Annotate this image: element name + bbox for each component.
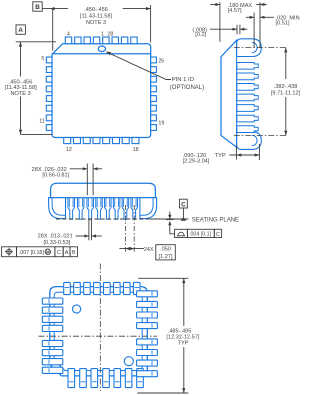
dimension 28X .026-.032 [0.66-0.81] <box>86 164 88 196</box>
flatness frame leader <box>168 221 171 226</box>
svg-text:[1.27]: [1.27] <box>159 254 173 260</box>
front view: hanging J-leads <box>68 198 75 220</box>
svg-text:C: C <box>216 232 220 238</box>
svg-text:28: 28 <box>107 32 113 38</box>
feature control frame: position .007 [0.18] M C A B <box>2 247 17 257</box>
svg-text:B: B <box>35 4 40 11</box>
bottom view: index hole top-left <box>73 305 81 313</box>
svg-text:MIN: MIN <box>289 15 299 21</box>
top view: top row pin tabs <box>65 37 71 44</box>
bottom view: vertical center line <box>99 264 101 392</box>
svg-text:C: C <box>181 201 186 208</box>
svg-text:M: M <box>46 250 50 255</box>
svg-text:25: 25 <box>158 59 164 65</box>
svg-text:4: 4 <box>67 32 70 38</box>
svg-text:[0.33-0.53]: [0.33-0.53] <box>44 240 71 246</box>
bottom view: index hole bottom-right <box>124 357 133 366</box>
svg-text:28X .013-.021: 28X .013-.021 <box>38 233 73 239</box>
svg-text:11: 11 <box>39 119 45 125</box>
dimension .485-.495 [12.32-12.57] TYP <box>138 277 188 279</box>
bottom view: top side lead tabs <box>64 282 71 294</box>
extension line at body bottom left <box>21 133 53 135</box>
dimension .090-.120 TYP [2.29-3.04] <box>236 146 238 160</box>
svg-text:NOTE 3: NOTE 3 <box>86 20 106 26</box>
datum C box <box>180 199 188 208</box>
front view: body top face <box>51 183 156 197</box>
bottom view: bottom side lead tabs <box>68 369 75 388</box>
svg-text:(OPTIONAL): (OPTIONAL) <box>170 85 204 91</box>
datum C triangle on seating plane <box>181 217 187 221</box>
small stand-off arrows at seating plane <box>166 219 174 221</box>
top view: PLCC body outline with pin-1 chamfer <box>52 44 151 138</box>
svg-text:[0.51]: [0.51] <box>276 20 290 26</box>
top view: inner line below top edge <box>53 53 151 55</box>
svg-text:[9.71-11.12]: [9.71-11.12] <box>271 91 301 97</box>
svg-text:TYP: TYP <box>178 341 189 347</box>
feature control frame: flatness .004 [0.1] C <box>175 229 188 237</box>
bottom view: horizontal center line <box>39 335 158 337</box>
dimension 24X .050 [1.27] basic <box>124 205 126 252</box>
svg-text:.004 [0.1]: .004 [0.1] <box>189 232 212 238</box>
svg-text:1: 1 <box>101 32 104 38</box>
side view: body spine line <box>236 40 238 148</box>
front view: left end J-lead cap <box>49 198 66 219</box>
svg-text:NOTE 3: NOTE 3 <box>10 91 30 97</box>
seating plane line <box>56 218 150 220</box>
front view: right end J-lead cap <box>140 198 157 219</box>
svg-text:[0.66-0.81]: [0.66-0.81] <box>42 172 69 178</box>
extension line from body top edge (A) <box>16 41 56 43</box>
svg-text:.485-.495: .485-.495 <box>168 328 192 334</box>
dimension .450-.456 left: dimension line <box>20 42 22 77</box>
svg-text:TYP: TYP <box>215 153 226 159</box>
svg-text:12: 12 <box>66 147 72 153</box>
dimension (.008) [0.2] <box>236 25 238 35</box>
side view: center line of bottom lead <box>234 135 288 137</box>
svg-text:[2.29-3.04]: [2.29-3.04] <box>183 159 210 165</box>
svg-text:.450-.456: .450-.456 <box>84 7 108 13</box>
bottom view: outer body outline <box>50 287 148 376</box>
extension line from body right edge <box>150 5 152 43</box>
svg-text:[4.57]: [4.57] <box>228 8 242 14</box>
leader: PIN 1 ID (OPTIONAL) <box>107 52 172 80</box>
svg-text:PIN 1 ID: PIN 1 ID <box>172 77 194 83</box>
dimension .450-.456 top: dimension line <box>42 8 68 10</box>
svg-text:B: B <box>72 250 76 256</box>
svg-text:24X: 24X <box>144 247 154 253</box>
side view: body outline <box>221 40 237 148</box>
top view: left column pin tabs <box>46 57 52 63</box>
svg-text:[0.2]: [0.2] <box>195 32 206 38</box>
dimension 28X .013-.021 [0.33-0.53] <box>88 219 90 240</box>
svg-text:5: 5 <box>41 56 44 62</box>
datum A box <box>16 25 25 34</box>
svg-text:A: A <box>65 250 69 256</box>
dimension .180 MAX [4.57] <box>219 2 221 42</box>
datum B box <box>33 2 42 11</box>
side view: center line of top lead <box>234 47 288 49</box>
top view: pin 1 ID ellipse <box>98 46 105 52</box>
svg-text:A: A <box>18 27 23 34</box>
svg-text:.050: .050 <box>160 247 171 253</box>
svg-text:.007 [0.18]: .007 [0.18] <box>19 250 45 256</box>
svg-text:.382-.438: .382-.438 <box>274 84 298 90</box>
bottom view: inner outline <box>54 292 142 370</box>
svg-text:SEATING PLANE: SEATING PLANE <box>192 218 239 224</box>
bottom view: left side lead tabs <box>42 298 63 304</box>
extension line from body left edge (B) <box>52 9 54 51</box>
side view: bottom J-lead (end-on) <box>237 132 262 150</box>
front view: lead band top edge <box>49 197 157 199</box>
top view: right column pin tabs <box>151 57 157 63</box>
side view: top J-lead (end-on) <box>237 39 262 57</box>
dimension .020 MIN [0.51] <box>253 13 255 48</box>
svg-text:19: 19 <box>158 121 164 127</box>
dimension .382-.438 [9.71-11.12] <box>285 48 287 79</box>
top view: bottom row pin tabs <box>64 138 71 144</box>
svg-text:[11.43-11.58]: [11.43-11.58] <box>80 14 113 20</box>
svg-text:18: 18 <box>133 147 139 153</box>
bottom view: right side lead tabs <box>137 291 158 297</box>
side view: middle J-leads stack <box>237 62 258 69</box>
svg-text:C: C <box>57 250 61 256</box>
svg-text:[12.32-12.57]: [12.32-12.57] <box>166 334 199 340</box>
